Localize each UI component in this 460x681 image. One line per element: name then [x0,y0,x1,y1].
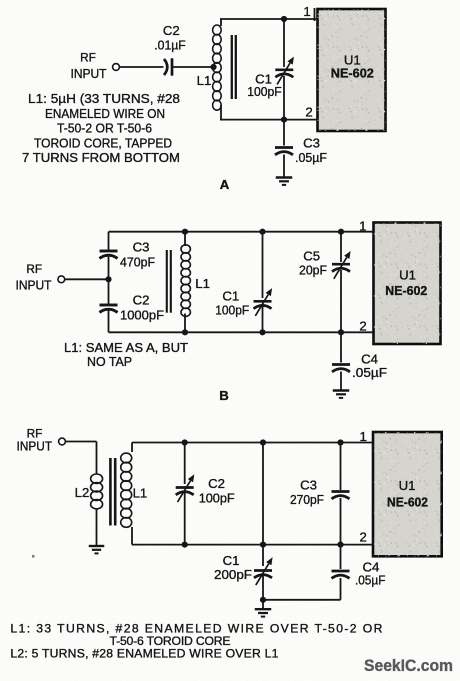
svg-text:C2: C2 [208,476,225,491]
svg-text:T-50-2 OR T-50-6: T-50-2 OR T-50-6 [57,121,152,136]
svg-text:INPUT: INPUT [17,439,53,454]
svg-text:L2: L2 [75,485,90,500]
svg-text:L1: SAME AS A, BUT: L1: SAME AS A, BUT [64,340,188,355]
svg-text:C3: C3 [133,240,150,255]
svg-text:.05µF: .05µF [295,150,327,165]
svg-text:C5: C5 [303,248,320,263]
svg-text:1: 1 [359,219,366,234]
svg-text:100pF: 100pF [199,491,235,506]
svg-text:A: A [220,177,230,192]
svg-text:NE-602: NE-602 [331,66,374,81]
svg-text:NE-602: NE-602 [387,494,428,509]
svg-text:NO TAP: NO TAP [87,354,132,369]
svg-text:L2: 5 TURNS, #28 ENAMELED WIR: L2: 5 TURNS, #28 ENAMELED WIRE OVER L1 [10,646,278,660]
svg-text:2: 2 [360,530,367,545]
svg-text:200pF: 200pF [214,567,252,582]
svg-text:1000pF: 1000pF [120,308,164,323]
svg-text:1: 1 [360,429,367,444]
svg-text:TOROID CORE, TAPPED: TOROID CORE, TAPPED [34,135,172,150]
svg-text:C3: C3 [300,477,317,492]
svg-text:.01µF: .01µF [154,38,186,53]
svg-text:1: 1 [303,4,310,19]
svg-text:.05µF: .05µF [352,365,387,380]
svg-text:20pF: 20pF [299,263,327,278]
svg-text:L1: 5µH (33 TURNS, #28: L1: 5µH (33 TURNS, #28 [28,91,180,106]
svg-text:SeekIC.com: SeekIC.com [364,656,453,675]
svg-text:RF: RF [26,262,42,276]
svg-text:U1: U1 [399,478,416,493]
svg-text:L1: L1 [197,73,212,88]
svg-text:7 TURNS FROM BOTTOM: 7 TURNS FROM BOTTOM [22,150,180,165]
svg-text:B: B [219,388,229,403]
svg-text:L1: L1 [133,486,148,501]
svg-text:470pF: 470pF [120,255,155,270]
svg-text:100pF: 100pF [247,84,282,99]
svg-text:C3: C3 [303,135,320,150]
svg-text:.05µF: .05µF [355,572,386,587]
svg-text:2: 2 [305,104,312,119]
svg-text:270pF: 270pF [290,492,324,507]
svg-text:C1: C1 [222,288,239,303]
svg-text:ENAMELED WIRE ON: ENAMELED WIRE ON [45,106,165,121]
svg-text:C2: C2 [133,293,150,308]
svg-text:INPUT: INPUT [71,66,107,81]
svg-text:RF: RF [80,51,96,65]
svg-text:L1: L1 [195,276,210,291]
svg-text:C1: C1 [223,553,240,568]
svg-text:INPUT: INPUT [16,278,52,293]
svg-text:C2: C2 [163,23,180,38]
svg-text:2: 2 [359,319,366,334]
svg-text:U1: U1 [399,268,416,283]
svg-text:NE-602: NE-602 [385,283,427,298]
svg-text:100pF: 100pF [215,303,249,318]
